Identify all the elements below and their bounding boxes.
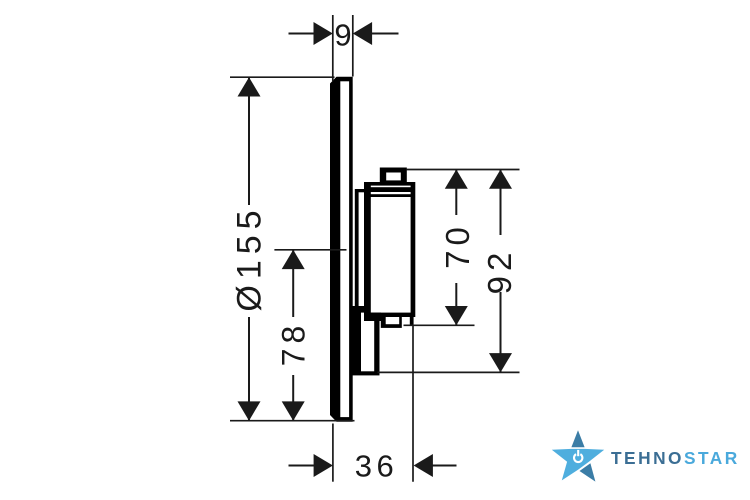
svg-text:70: 70 xyxy=(439,222,476,269)
svg-text:36: 36 xyxy=(355,449,398,484)
svg-text:TEHNOSTAR: TEHNOSTAR xyxy=(611,448,740,468)
svg-text:92: 92 xyxy=(481,248,518,295)
svg-text:Ø155: Ø155 xyxy=(231,204,269,311)
svg-text:78: 78 xyxy=(276,321,312,367)
svg-text:9: 9 xyxy=(334,18,351,53)
